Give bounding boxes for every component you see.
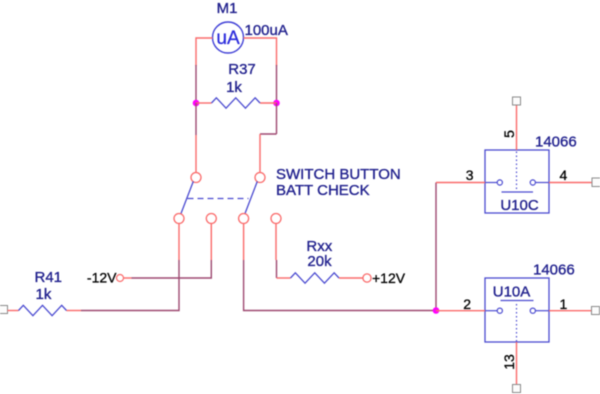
svg-text:U10A: U10A — [493, 284, 531, 301]
svg-text:14066: 14066 — [535, 134, 577, 151]
svg-text:1: 1 — [560, 296, 568, 312]
svg-text:1k: 1k — [226, 79, 242, 96]
svg-text:100uA: 100uA — [245, 22, 288, 39]
svg-text:SWITCH BUTTON: SWITCH BUTTON — [276, 166, 401, 183]
svg-text:U10C: U10C — [500, 197, 539, 214]
svg-text:uA: uA — [216, 28, 240, 49]
svg-text:4: 4 — [560, 167, 568, 183]
svg-text:20k: 20k — [307, 253, 332, 270]
svg-text:M1: M1 — [217, 0, 238, 17]
svg-text:1k: 1k — [36, 286, 52, 303]
svg-text:-12V: -12V — [87, 270, 117, 286]
svg-text:13: 13 — [501, 354, 517, 370]
svg-text:R41: R41 — [35, 269, 63, 286]
svg-text:14066: 14066 — [533, 262, 575, 279]
svg-text:+12V: +12V — [372, 270, 406, 286]
svg-text:5: 5 — [501, 130, 517, 138]
svg-text:R37: R37 — [228, 61, 256, 78]
svg-text:2: 2 — [463, 296, 471, 312]
svg-text:BATT CHECK: BATT CHECK — [276, 182, 370, 199]
svg-text:3: 3 — [466, 167, 474, 183]
